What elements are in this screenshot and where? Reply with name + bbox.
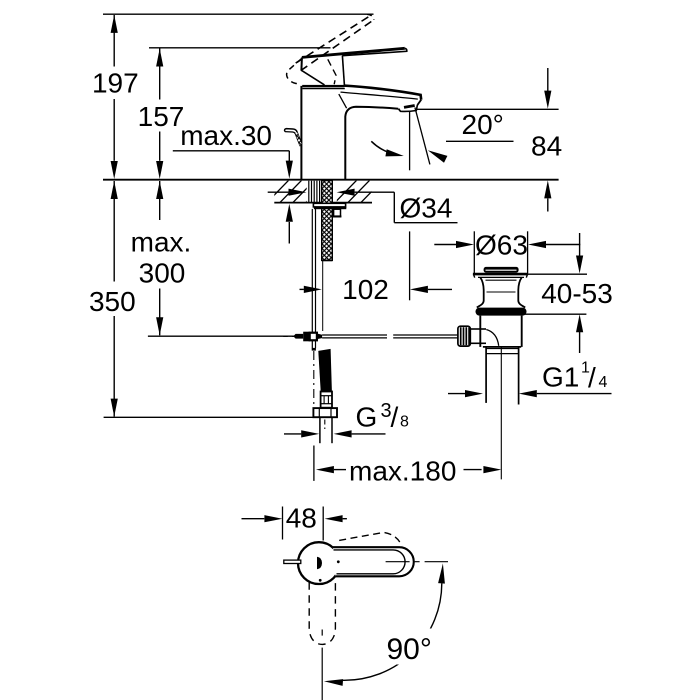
lever top edge bbox=[302, 48, 405, 57]
mounting nut bbox=[313, 203, 345, 207]
svg-text:Ø34: Ø34 bbox=[400, 192, 453, 223]
dim 40-53 lower bbox=[576, 314, 583, 332]
svg-text:90°: 90° bbox=[387, 633, 432, 666]
vertical centerline bbox=[321, 630, 323, 636]
top view pop-up rod pin bbox=[284, 560, 301, 563]
pop-up rod handle hook bbox=[285, 129, 302, 144]
extension line 40-53 lower bbox=[521, 313, 586, 315]
faucet body top edge / gap shadow bbox=[302, 85, 344, 88]
spout shading diagonal bbox=[339, 94, 347, 108]
svg-text:4: 4 bbox=[599, 374, 608, 391]
dim Ø34 arrows at deck hole bbox=[268, 191, 289, 193]
svg-text:max.: max. bbox=[131, 226, 192, 257]
20 deg leader bbox=[446, 140, 514, 142]
dashed rotated wedge edge bbox=[328, 59, 336, 84]
dim max.180 bbox=[316, 466, 334, 473]
horseshoe washer bbox=[334, 209, 341, 216]
dashed lever down position bbox=[309, 582, 335, 644]
svg-text:max.180: max.180 bbox=[349, 455, 456, 486]
svg-text:300: 300 bbox=[139, 258, 186, 289]
deck hatching left bbox=[266, 180, 328, 203]
spout tip face bbox=[417, 100, 421, 105]
extension line 40-53 upper bbox=[517, 273, 587, 275]
svg-text:102: 102 bbox=[342, 274, 389, 305]
supply pipe end bbox=[319, 417, 321, 443]
deck hatching right bbox=[334, 180, 383, 203]
dim max.300 vertical line bbox=[159, 181, 161, 220]
dim 350 vertical line below deck bbox=[113, 181, 115, 282]
svg-text:48: 48 bbox=[286, 503, 317, 534]
dim 102 bbox=[300, 288, 304, 290]
threaded shank bbox=[308, 181, 310, 203]
dashed lever tip cap bbox=[367, 14, 374, 19]
dim 48 bbox=[242, 518, 265, 520]
extension line spout outlet (84) bbox=[417, 108, 559, 110]
extension line max.300 bottom bbox=[148, 335, 299, 337]
dim 197 vertical line bbox=[113, 15, 115, 67]
lever tip and underside bbox=[342, 48, 407, 55]
hose connector bbox=[321, 392, 332, 408]
label 90 deg bbox=[380, 629, 434, 665]
Ø34 leader bbox=[393, 192, 395, 223]
top view outer lever bbox=[333, 547, 414, 576]
extension line max.180 left bbox=[313, 446, 315, 481]
drain centerline bbox=[500, 348, 502, 480]
rod clamp fitting bbox=[303, 332, 310, 342]
drain flange bell bbox=[477, 278, 484, 308]
extension line 350 bottom bbox=[104, 416, 337, 418]
dashed lever raised edge B bbox=[301, 20, 374, 71]
aerator slot bbox=[404, 106, 415, 108]
faucet body right side / spout underside bbox=[345, 107, 398, 179]
rod centerline dashes bbox=[283, 335, 288, 337]
svg-text:40-53: 40-53 bbox=[541, 278, 613, 309]
svg-text:8: 8 bbox=[400, 413, 409, 430]
supply hose lower (black) bbox=[318, 349, 332, 392]
90 deg arc bbox=[343, 583, 442, 680]
extension/centerline 102 left bbox=[322, 260, 324, 332]
top view inner lever bbox=[334, 550, 406, 574]
svg-text:G: G bbox=[356, 401, 378, 432]
dashed rotated lever arc bbox=[339, 532, 402, 546]
svg-text:350: 350 bbox=[89, 286, 136, 317]
deck top line bbox=[103, 179, 559, 181]
curved arrow water stream bbox=[371, 141, 397, 155]
extension lines Ø63 bbox=[473, 231, 475, 273]
dim 157 vertical line bbox=[159, 49, 161, 100]
dim Ø63 arrows bbox=[434, 244, 456, 246]
water line vertical bbox=[409, 111, 411, 171]
svg-text:157: 157 bbox=[138, 101, 185, 132]
extension line top (197) bbox=[103, 13, 374, 15]
lever left face bbox=[300, 57, 303, 70]
extension lines 48 bbox=[282, 507, 284, 540]
drain flange brim bbox=[473, 273, 528, 276]
dashed lever pivot outline bbox=[287, 58, 302, 83]
aerator outlet bbox=[398, 105, 417, 112]
extension line 102 right (stream) bbox=[409, 231, 411, 300]
pop-up pull rod bbox=[311, 209, 313, 333]
faucet body left edge bbox=[300, 86, 302, 179]
drain plug cap bbox=[484, 267, 519, 273]
lever wedge right edge bbox=[342, 56, 344, 85]
extension line 157 bbox=[149, 47, 331, 49]
top view cartridge mark bbox=[317, 557, 322, 570]
water line 20 deg bbox=[415, 107, 430, 164]
spout top edge bbox=[344, 86, 422, 100]
svg-text:Ø63: Ø63 bbox=[475, 230, 528, 261]
svg-text:84: 84 bbox=[531, 131, 562, 162]
drain tailpipe bbox=[485, 348, 487, 403]
drain body bbox=[479, 316, 481, 347]
drain knurled knob bbox=[458, 326, 470, 346]
deck bottom line bbox=[274, 202, 372, 204]
braided supply hose upper bbox=[322, 181, 333, 261]
svg-text:max.30: max.30 bbox=[180, 120, 272, 151]
rod axis dash-dot bbox=[313, 351, 315, 404]
dim 40-53 upper bbox=[579, 233, 581, 256]
dim 84 bbox=[547, 68, 549, 91]
horizontal pop-up rod bbox=[322, 334, 387, 336]
dim G 3/8 bbox=[284, 433, 301, 435]
svg-text:/: / bbox=[588, 362, 596, 393]
spout inner line bbox=[341, 92, 418, 99]
svg-text:197: 197 bbox=[92, 68, 139, 99]
top view faucet base circle bbox=[298, 542, 340, 584]
G3/8 nut bbox=[313, 408, 337, 417]
dashed lever raised edge A bbox=[296, 15, 371, 63]
drain side port bbox=[470, 328, 486, 330]
center dots bbox=[337, 560, 340, 563]
svg-text:G1: G1 bbox=[542, 362, 579, 393]
dim G1 1/4 bbox=[448, 393, 465, 395]
svg-text:/: / bbox=[391, 401, 399, 432]
max.30 leader underline bbox=[173, 150, 289, 152]
drain seal ring bbox=[476, 308, 527, 316]
horizontal reference line bbox=[386, 561, 448, 563]
svg-text:20°: 20° bbox=[462, 109, 504, 140]
max.30 lower arrow below deck bbox=[288, 222, 290, 244]
lever wedge lower diagonal bbox=[301, 70, 324, 85]
